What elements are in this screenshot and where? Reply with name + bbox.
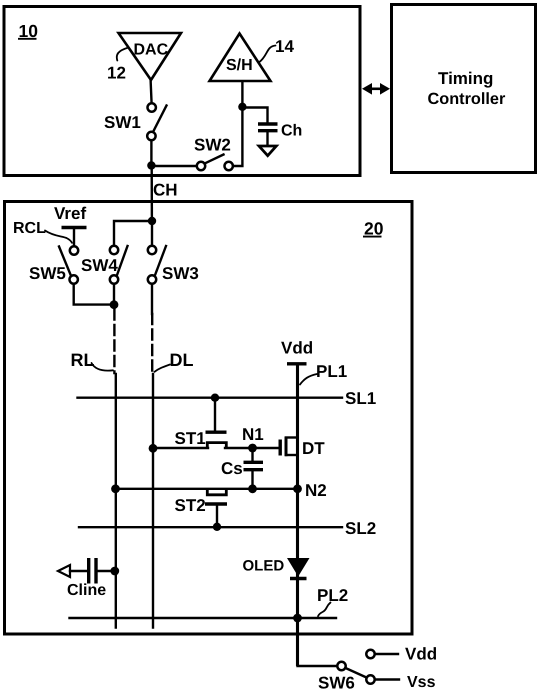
wire CH to SW3	[151, 221, 153, 244]
svg-text:OLED: OLED	[243, 558, 285, 575]
svg-text:RCL: RCL	[13, 220, 46, 237]
svg-text:S/H: S/H	[226, 57, 253, 74]
wire DAC to SW1	[151, 80, 152, 104]
wire SW4 to RL node	[113, 284, 115, 305]
junction dot RL top	[110, 300, 119, 309]
junction dot CH top	[147, 161, 155, 169]
bidirectional arrow	[362, 83, 390, 95]
capacitor Cs	[221, 448, 263, 489]
wire SW2 to S/H output	[233, 81, 242, 166]
wire N2 row	[116, 488, 298, 490]
transistor ST1	[153, 398, 253, 448]
wire to Vss terminal	[375, 678, 399, 680]
node CH label	[153, 181, 178, 200]
svg-text:PL1: PL1	[316, 362, 347, 381]
switch SW5	[29, 246, 78, 283]
wire SL2	[79, 526, 342, 528]
op-amp S/H U14	[210, 34, 271, 82]
svg-text:SW1: SW1	[104, 113, 141, 132]
junction dot ST1 to DL	[149, 444, 158, 453]
wire PL2 rail to SW6	[298, 665, 338, 667]
junction dot Cline to RL	[110, 567, 119, 576]
svg-text:Controller: Controller	[428, 90, 506, 108]
svg-text:Vdd: Vdd	[281, 339, 313, 358]
svg-text:Ch: Ch	[281, 123, 302, 140]
svg-text:SW4: SW4	[81, 256, 118, 275]
node DL label	[155, 350, 194, 372]
Vref supply	[54, 204, 87, 246]
wire DL dashed	[151, 314, 153, 373]
wire PL2	[70, 617, 337, 619]
wire SL1	[78, 397, 343, 399]
svg-text:12: 12	[107, 64, 126, 83]
junction dot PL2	[293, 614, 302, 623]
DAC U12	[119, 33, 182, 80]
junction dot ST2 gate on SL2	[213, 523, 221, 531]
svg-text:RL: RL	[71, 350, 95, 370]
wire RL dashed	[113, 310, 115, 374]
switch SW3	[148, 246, 199, 284]
Timing Controller box	[392, 5, 536, 173]
wire RL solid	[115, 374, 117, 628]
svg-text:Timing: Timing	[438, 69, 493, 88]
switch SW4	[81, 246, 128, 284]
power Vdd top	[281, 339, 313, 364]
svg-text:N1: N1	[242, 425, 264, 444]
lead line PL2	[317, 586, 348, 616]
power Vdd bottom label	[405, 645, 437, 664]
capacitor Ch	[258, 123, 302, 146]
wire SW1 to node	[150, 141, 152, 166]
label 10	[18, 21, 38, 41]
svg-text:SW2: SW2	[194, 136, 231, 155]
svg-text:DL: DL	[170, 350, 194, 370]
wire SW5 to RL node	[74, 284, 110, 305]
svg-text:Vdd: Vdd	[405, 645, 437, 664]
svg-text:SL2: SL2	[345, 519, 376, 538]
junction dot CH in block 20	[148, 217, 156, 225]
wire CH between blocks	[150, 166, 153, 221]
transistor ST2	[175, 489, 228, 528]
switch SW6	[318, 650, 375, 690]
node N1	[242, 425, 264, 452]
junction dot ST1 gate on SL1	[211, 394, 219, 402]
switch SW1	[104, 103, 167, 140]
svg-text:DT: DT	[302, 439, 325, 458]
junction dot ST2 to RL	[111, 484, 120, 493]
svg-text:SW3: SW3	[162, 264, 199, 283]
svg-text:SL1: SL1	[345, 389, 376, 408]
svg-text:SW6: SW6	[318, 674, 355, 690]
wire DL solid	[152, 374, 154, 628]
capacitor Cline	[58, 558, 116, 599]
wire node to SW4	[114, 221, 152, 244]
lead line RCL	[13, 220, 72, 243]
wire to Vdd terminal	[375, 653, 398, 655]
svg-text:Vref: Vref	[54, 204, 86, 223]
junction dot Cs bottom	[248, 484, 257, 493]
junction dot S/H output	[238, 103, 246, 111]
wire DL from SW3	[151, 284, 153, 314]
power Vss label	[407, 674, 436, 690]
svg-text:PL2: PL2	[317, 586, 348, 605]
node RL label	[71, 350, 114, 371]
lead line 14	[259, 37, 295, 63]
svg-text:Cs: Cs	[221, 459, 243, 478]
svg-text:CH: CH	[153, 181, 178, 200]
transistor DT	[253, 437, 326, 459]
svg-text:ST2: ST2	[175, 496, 206, 515]
wire PL1 vertical rail	[296, 365, 299, 666]
diode OLED	[243, 558, 310, 579]
lead line PL1	[300, 362, 347, 385]
switch SW2	[194, 136, 233, 171]
svg-text:14: 14	[275, 37, 294, 56]
svg-text:Cline: Cline	[67, 582, 106, 599]
svg-text:20: 20	[364, 219, 384, 239]
node N2	[293, 481, 327, 500]
ground	[259, 146, 276, 156]
svg-text:SW5: SW5	[29, 264, 66, 283]
svg-text:ST1: ST1	[175, 429, 206, 448]
block 20 box	[5, 202, 413, 635]
svg-text:DAC: DAC	[134, 42, 169, 59]
svg-text:N2: N2	[305, 481, 327, 500]
svg-text:Vss: Vss	[407, 674, 436, 690]
label 20	[363, 219, 384, 239]
wire to capacitor Ch	[242, 108, 267, 123]
node SL1 label	[345, 389, 376, 408]
block 10 box	[4, 7, 360, 176]
wire node to SW2	[151, 165, 196, 167]
lead line 12	[107, 48, 129, 83]
node SL2 label	[345, 519, 376, 538]
